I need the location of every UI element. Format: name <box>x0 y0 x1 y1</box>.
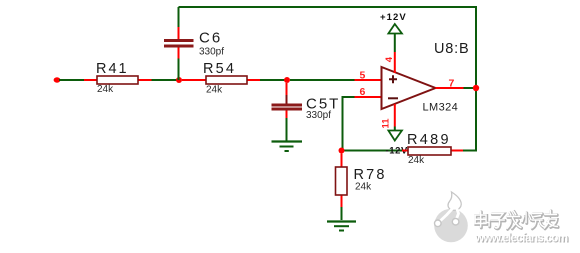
svg-text:+12V: +12V <box>380 12 407 23</box>
node C (junction pin6 wire / R489 / R78) <box>339 148 345 154</box>
svg-text:24k: 24k <box>355 182 372 193</box>
capacitor C5T <box>272 83 341 141</box>
pin 11 lead <box>381 104 395 129</box>
pin 4 lead <box>384 52 395 73</box>
wire: input to R41 <box>59 79 84 81</box>
svg-text:R41: R41 <box>96 61 129 77</box>
ground below R78 <box>327 222 356 231</box>
svg-text:24k: 24k <box>206 85 223 96</box>
watermark logo (elecfans) <box>434 192 468 242</box>
op-amp U8:B <box>382 41 470 114</box>
svg-text:24k: 24k <box>408 155 425 166</box>
wire: op-amp pin 6 to feedback node <box>343 97 355 151</box>
ground below C5T <box>272 142 303 152</box>
wire: feedback node to R489 <box>344 150 402 152</box>
node A (junction R41/R54/C6) <box>176 77 182 83</box>
svg-text:C6: C6 <box>199 30 222 47</box>
wire: top feedback run from C6 top across and down right side <box>179 7 477 151</box>
power +12V <box>380 12 407 52</box>
resistor R54 <box>182 61 260 96</box>
wire: R54 to node B <box>260 79 287 81</box>
svg-text:5: 5 <box>360 69 366 81</box>
wire: R41 to node A <box>152 79 180 81</box>
svg-text:www.elecfans.com: www.elecfans.com <box>474 231 568 245</box>
watermark text www.elecfans.com (embossed) <box>474 231 569 246</box>
resistor R489 <box>402 132 463 166</box>
pin 5 lead <box>355 69 382 81</box>
svg-text:7: 7 <box>449 77 455 89</box>
svg-text:4: 4 <box>384 56 395 62</box>
resistor R78 <box>336 154 387 208</box>
svg-text:11: 11 <box>381 118 392 129</box>
svg-text:R54: R54 <box>203 61 236 77</box>
pin 7 output lead <box>436 77 464 89</box>
node OUT (junction pin7/right vertical) <box>473 85 479 91</box>
capacitor C6 <box>164 7 224 80</box>
wire: node B to op-amp pin 5 <box>290 79 355 81</box>
node IN (input dot) <box>54 77 61 82</box>
wire: output lead to right vertical <box>464 87 475 89</box>
wire: R78 to ground <box>341 207 343 220</box>
svg-text:U8:B: U8:B <box>434 41 469 57</box>
svg-text:330pf: 330pf <box>199 46 224 57</box>
pin 6 lead <box>355 86 382 98</box>
svg-text:330pf: 330pf <box>306 110 331 121</box>
resistor R41 <box>84 61 152 95</box>
power -12V <box>386 127 409 157</box>
svg-text:24k: 24k <box>97 84 114 95</box>
node B (junction R54/C5T/pin5) <box>284 77 290 83</box>
svg-text:LM324: LM324 <box>423 102 459 114</box>
svg-text:6: 6 <box>360 86 366 98</box>
svg-text:R489: R489 <box>407 132 451 148</box>
